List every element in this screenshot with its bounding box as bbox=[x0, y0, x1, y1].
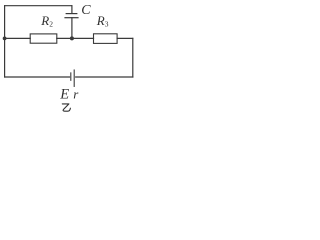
node junction capacitor/middle bbox=[70, 36, 74, 40]
svg-text:R3: R3 bbox=[96, 13, 109, 28]
wire top (node to capacitor) bbox=[5, 5, 72, 7]
wire bottom left segment bbox=[5, 76, 70, 78]
label figure 乙 bbox=[62, 104, 70, 111]
battery E r bbox=[71, 70, 74, 86]
node junction left bbox=[3, 37, 7, 41]
wire middle left segment bbox=[5, 37, 31, 39]
wire middle center segment bbox=[57, 37, 94, 39]
wire capacitor top lead bbox=[71, 6, 73, 14]
capacitor C bbox=[65, 14, 78, 18]
svg-text:C: C bbox=[81, 3, 91, 18]
wire bottom right segment bbox=[76, 76, 133, 78]
wire middle right segment bbox=[117, 37, 133, 39]
resistor R3 bbox=[94, 34, 118, 44]
wire left border bbox=[4, 6, 6, 77]
resistor R2 bbox=[30, 34, 57, 43]
wire right border bbox=[132, 38, 134, 77]
wire capacitor bottom lead bbox=[71, 18, 73, 39]
svg-text:R2: R2 bbox=[40, 13, 53, 28]
svg-text:E: E bbox=[59, 87, 69, 103]
svg-text:r: r bbox=[73, 87, 79, 102]
